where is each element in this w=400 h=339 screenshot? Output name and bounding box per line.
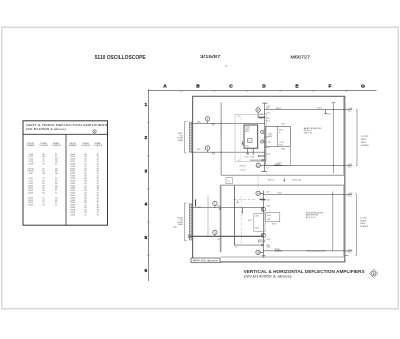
svg-text:J420: J420 bbox=[173, 226, 177, 228]
svg-text:C413: C413 bbox=[327, 113, 331, 115]
svg-text:to CRT: to CRT bbox=[360, 216, 367, 219]
svg-text:SEE P. 40: SEE P. 40 bbox=[304, 133, 312, 135]
svg-text:C410: C410 bbox=[266, 118, 270, 120]
svg-text:R426: R426 bbox=[267, 215, 271, 217]
svg-text:C428: C428 bbox=[266, 246, 270, 248]
svg-text:C417 12: C417 12 bbox=[240, 169, 246, 171]
svg-text:VERTICAL & HORIZONTAL DEFLECTI: VERTICAL & HORIZONTAL DEFLECTION AMPLIFI… bbox=[244, 269, 365, 274]
svg-text:C424: C424 bbox=[266, 205, 270, 207]
svg-text:+C415: +C415 bbox=[279, 142, 284, 144]
svg-text:17: 17 bbox=[228, 181, 230, 183]
svg-text:R412: R412 bbox=[245, 146, 249, 148]
svg-text:13: 13 bbox=[238, 116, 240, 118]
svg-text:(SN B140959 & above): (SN B140959 & above) bbox=[244, 275, 292, 279]
svg-text:R411: R411 bbox=[245, 157, 249, 159]
svg-text:4x: 4x bbox=[279, 132, 281, 134]
svg-text:R420: R420 bbox=[278, 193, 282, 195]
svg-text:4: 4 bbox=[144, 202, 147, 208]
svg-text:3/15/87: 3/15/87 bbox=[200, 54, 221, 59]
svg-text:L410: L410 bbox=[266, 112, 270, 114]
svg-text:R415: R415 bbox=[279, 130, 283, 132]
svg-text:LOCATION: LOCATION bbox=[39, 144, 49, 147]
svg-text:464-A1 above: 464-A1 above bbox=[193, 260, 220, 263]
svg-text:C416: C416 bbox=[266, 154, 270, 156]
svg-text:D: D bbox=[262, 83, 266, 89]
svg-text:(DC): (DC) bbox=[348, 252, 352, 254]
svg-text:C: C bbox=[229, 83, 233, 89]
svg-text:NUMBER: NUMBER bbox=[27, 145, 35, 147]
svg-text:Q410: Q410 bbox=[268, 134, 272, 136]
svg-text:1: 1 bbox=[144, 102, 147, 108]
svg-text:Q420: Q420 bbox=[255, 215, 259, 217]
svg-text:R413: R413 bbox=[276, 108, 281, 110]
svg-text:C410: C410 bbox=[266, 120, 270, 122]
svg-text:(DC): (DC) bbox=[348, 166, 352, 168]
svg-text:F: F bbox=[329, 83, 332, 89]
svg-text:4, 8: 4, 8 bbox=[266, 167, 269, 169]
svg-text:5110 OSCILLOSCOPE: 5110 OSCILLOSCOPE bbox=[95, 55, 147, 61]
svg-text:C42: C42 bbox=[217, 239, 220, 241]
svg-text:MAIN: MAIN bbox=[178, 139, 183, 142]
svg-text:T410: T410 bbox=[281, 124, 285, 126]
svg-text:C413 1: C413 1 bbox=[317, 107, 323, 109]
svg-text:M56727: M56727 bbox=[291, 54, 311, 59]
svg-text:DEFL: DEFL bbox=[360, 223, 366, 225]
svg-text:3: 3 bbox=[144, 168, 147, 174]
svg-text:PLATES: PLATES bbox=[361, 144, 369, 147]
svg-text:L420: L420 bbox=[266, 192, 270, 194]
svg-text:Q422: Q422 bbox=[255, 228, 259, 230]
svg-text:C412: C412 bbox=[266, 147, 270, 149]
svg-text:R428: R428 bbox=[272, 224, 276, 226]
svg-text:17: 17 bbox=[241, 212, 243, 214]
svg-text:NUMBER: NUMBER bbox=[69, 145, 77, 147]
svg-text:Q422: Q422 bbox=[28, 193, 34, 195]
svg-text:C426: C426 bbox=[266, 239, 270, 241]
svg-text:PLATES: PLATES bbox=[360, 225, 368, 228]
svg-text:(DC): (DC) bbox=[348, 195, 352, 197]
svg-text:C420: C420 bbox=[266, 200, 270, 202]
svg-text:LOCATION: LOCATION bbox=[52, 144, 62, 147]
svg-text:R419 16: R419 16 bbox=[240, 165, 246, 167]
svg-text:(SN B140849 & above): (SN B140849 & above) bbox=[26, 127, 66, 131]
svg-text:HORIZ: HORIZ bbox=[360, 220, 367, 222]
svg-text:12: 12 bbox=[238, 160, 240, 162]
svg-text:A: A bbox=[163, 83, 167, 89]
svg-text:LOCATION: LOCATION bbox=[81, 144, 91, 147]
svg-text:R414: R414 bbox=[251, 157, 255, 159]
svg-text:DEFL: DEFL bbox=[361, 142, 367, 144]
svg-text:R418: R418 bbox=[281, 149, 285, 151]
svg-text:A5 (2) P. 40: A5 (2) P. 40 bbox=[306, 216, 315, 219]
svg-text:R416: R416 bbox=[279, 144, 283, 146]
svg-text:+C414: +C414 bbox=[266, 142, 271, 144]
svg-text:VERT: VERT bbox=[361, 139, 367, 141]
svg-text:6: 6 bbox=[144, 268, 147, 274]
svg-text:R417 1: R417 1 bbox=[268, 179, 275, 181]
svg-text:2: 2 bbox=[373, 272, 375, 276]
svg-text:G: G bbox=[361, 83, 365, 89]
svg-text:LOCATION: LOCATION bbox=[93, 144, 103, 147]
svg-text:Removed: Removed bbox=[293, 180, 302, 182]
svg-text:TO CRT: TO CRT bbox=[361, 136, 369, 138]
svg-text:5: 5 bbox=[144, 235, 147, 241]
svg-text:R41: R41 bbox=[266, 137, 269, 139]
svg-text:MAIN: MAIN bbox=[178, 223, 183, 226]
svg-text:2: 2 bbox=[144, 135, 147, 141]
svg-text:12: 12 bbox=[235, 247, 237, 249]
svg-text:(DC): (DC) bbox=[348, 110, 352, 112]
svg-text:B: B bbox=[196, 83, 200, 89]
svg-text:J412: J412 bbox=[197, 149, 201, 151]
svg-text:R422: R422 bbox=[248, 220, 252, 222]
svg-text:J410: J410 bbox=[197, 121, 201, 123]
svg-text:J420: J420 bbox=[217, 206, 221, 208]
svg-text:R1: R1 bbox=[248, 140, 250, 142]
